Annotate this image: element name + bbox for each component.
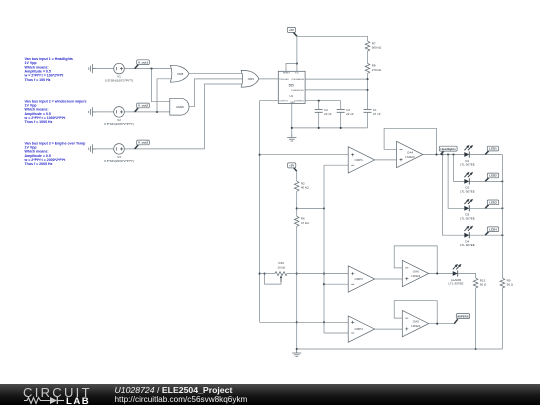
- wire gnd to V1: [92, 68, 113, 70]
- ground U1: [287, 133, 296, 141]
- comparator CMP3: [348, 266, 374, 292]
- comparator CMP4: [348, 316, 374, 342]
- wire V1 to AND8 in1: [152, 69, 170, 102]
- svg-text:U1: U1: [289, 94, 293, 98]
- wire V3 output: [124, 148, 204, 150]
- svg-text:LM324: LM324: [411, 274, 421, 278]
- svg-text:WIPERS: WIPERS: [457, 314, 468, 318]
- wire +5V to R7: [297, 36, 368, 41]
- junction ref cmp3row: [323, 273, 325, 275]
- wire U1 OUTPUT down: [260, 101, 279, 323]
- svg-text:Headlights: Headlights: [441, 147, 457, 151]
- wire V2 output: [124, 111, 170, 113]
- svg-text:CMP4: CMP4: [355, 327, 364, 331]
- junction OA4 feedback out: [435, 153, 437, 155]
- ground G1: [89, 64, 97, 73]
- voltage source V1: [105, 63, 133, 82]
- wire output row to R10: [260, 273, 268, 275]
- svg-text:OR9: OR9: [248, 77, 255, 81]
- svg-text:V_out3: V_out3: [138, 141, 148, 145]
- ground rail: [292, 349, 301, 357]
- wire feed D4: [442, 155, 464, 236]
- svg-text:560 kΩ: 560 kΩ: [372, 46, 382, 50]
- wire reference vertical: [323, 165, 325, 333]
- svg-text:47 kΩ: 47 kΩ: [301, 221, 310, 225]
- wire C2 to rail: [318, 112, 320, 128]
- wire gnd to V3: [92, 148, 113, 150]
- svg-text:40 kΩ: 40 kΩ: [301, 186, 310, 190]
- wire R10 to CMP3 +: [287, 273, 348, 275]
- or-gate OR9: [241, 70, 259, 87]
- wire OA4 feedback: [384, 128, 436, 154]
- resistor R8: [365, 63, 370, 73]
- junction wiper: [263, 273, 265, 275]
- junction feed D2: [452, 153, 454, 155]
- wire CMP1 out to OA4: [375, 159, 397, 161]
- svg-text:56 Ω: 56 Ω: [507, 283, 514, 287]
- wire to RESET pin: [286, 64, 297, 72]
- junction ref cmp4row: [323, 321, 325, 323]
- wire C1 to rail: [367, 112, 369, 128]
- svg-text:LED4: LED4: [489, 227, 497, 231]
- LED D3: [464, 199, 473, 212]
- wire +5V to R2: [296, 171, 298, 181]
- svg-text:Thus f = 100 Hz: Thus f = 100 Hz: [25, 78, 51, 82]
- 555 timer U1: [278, 71, 305, 104]
- junction D4 to bus: [501, 234, 503, 236]
- LED D1: [464, 145, 473, 158]
- wire V2 to OR8 in2: [157, 79, 172, 112]
- junction C2 rail: [318, 127, 320, 129]
- junction node V2: [156, 111, 158, 113]
- svg-text:LTL-307EE: LTL-307EE: [460, 243, 475, 247]
- svg-text:47 nF: 47 nF: [373, 112, 381, 116]
- wire R12 to rail: [475, 288, 477, 349]
- svg-text:OR8: OR8: [177, 72, 184, 76]
- and-gate AND8: [170, 98, 189, 115]
- svg-text:LTL-307EE: LTL-307EE: [460, 216, 475, 220]
- ground G3: [89, 144, 97, 153]
- svg-text:TRIGGER: TRIGGER: [279, 79, 289, 81]
- wire D2 cathode: [470, 180, 503, 182]
- junction threshold node: [366, 89, 368, 91]
- resistor R7: [365, 41, 370, 51]
- svg-text:0.5*SIN(1000*2*PI*T): 0.5*SIN(1000*2*PI*T): [104, 122, 134, 126]
- resistor R2: [294, 181, 299, 191]
- svg-text:Thus f = 2000 Hz: Thus f = 2000 Hz: [25, 162, 53, 166]
- LED D4: [464, 226, 473, 239]
- LED ALARM: [453, 264, 462, 277]
- junction OA6 feedback out: [436, 272, 438, 274]
- svg-text:GND: GND: [290, 102, 295, 104]
- svg-text:LTL-307EE: LTL-307EE: [460, 163, 475, 167]
- wire feed D2: [454, 155, 465, 182]
- junction gnd rail: [291, 127, 293, 129]
- footer bar: [0, 384, 540, 405]
- wire CMP3 out to OA6: [375, 278, 403, 280]
- circuitlab logo: [23, 385, 92, 400]
- wire V3 to OR9 in3: [205, 84, 244, 149]
- junction reset-vcc: [296, 62, 298, 64]
- resistor R12: [473, 278, 478, 288]
- wire to C3: [340, 101, 342, 110]
- svg-text:OUTPUT: OUTPUT: [279, 101, 288, 103]
- svg-text:CMP1: CMP1: [355, 158, 364, 162]
- flag LED1: [485, 146, 498, 154]
- ground G2: [89, 107, 97, 116]
- junction R12 rail: [475, 348, 477, 350]
- svg-text:10 kΩ: 10 kΩ: [277, 265, 286, 269]
- flag LED4: [485, 227, 498, 235]
- svg-text:VCC: VCC: [295, 72, 300, 74]
- wire OA6 feedback: [394, 246, 437, 274]
- wire R6 down to rail: [296, 227, 298, 350]
- junction feed D3: [447, 153, 449, 155]
- wire U1 CONTROL: [305, 100, 341, 102]
- wire OR9 out to U1 TRIGGER: [259, 78, 278, 80]
- wire U1 DISCHARGE: [305, 78, 367, 80]
- wire C3 to rail: [340, 112, 342, 128]
- svg-text:22 nF: 22 nF: [346, 112, 354, 116]
- flag Headlights: [439, 146, 457, 154]
- wire D1 cathode: [470, 154, 503, 156]
- wire alarm to R12: [458, 274, 475, 279]
- svg-text:0.5*SIN(100*2*PI*T): 0.5*SIN(100*2*PI*T): [105, 79, 133, 83]
- junction C3 rail: [340, 127, 342, 129]
- wire OA5 feedback: [394, 301, 437, 324]
- wire R7 to R8: [367, 51, 369, 63]
- junction output to CMP1: [259, 154, 261, 156]
- svg-text:LM324: LM324: [405, 155, 415, 159]
- wire R2 to R6: [296, 191, 298, 216]
- junction discharge node: [366, 78, 368, 80]
- LED D2: [464, 172, 473, 185]
- capacitor C2: [315, 109, 323, 112]
- wire +5V down to VCC: [296, 36, 298, 71]
- junction C2 tap: [318, 100, 320, 102]
- svg-text:LTL-307EE: LTL-307EE: [460, 189, 475, 193]
- resistor R9: [500, 278, 505, 288]
- wire output to CMP4 +: [260, 321, 349, 323]
- junction D2 to bus: [501, 180, 503, 182]
- svg-text:AND8: AND8: [176, 105, 184, 109]
- wire U1 THRESHOLD: [305, 89, 367, 91]
- or-gate OR8: [170, 65, 189, 82]
- svg-text:555: 555: [289, 83, 295, 87]
- wire divider tap: [297, 207, 324, 209]
- wire OA4 out to D1: [423, 154, 464, 156]
- wire R10 wiper loop: [265, 274, 282, 285]
- wire CMP4 out to OA5: [375, 328, 403, 330]
- voltage source V2: [104, 107, 134, 126]
- svg-text:270 kΩ: 270 kΩ: [372, 68, 382, 72]
- wire D3 cathode: [470, 207, 503, 209]
- svg-text:0.5*SIN(2000*2*PI*T): 0.5*SIN(2000*2*PI*T): [104, 159, 134, 163]
- wire R9 to rail: [501, 288, 503, 349]
- wire output to CMP1 +: [260, 154, 349, 156]
- wire feed D3: [448, 155, 464, 209]
- wire R8 down to C1: [367, 74, 369, 110]
- junction divider tap: [296, 207, 298, 209]
- junction R6 cmp4row: [296, 321, 298, 323]
- svg-text:DISCHARGE: DISCHARGE: [292, 78, 305, 81]
- svg-text:LED1: LED1: [489, 147, 497, 151]
- flag LED3: [485, 200, 498, 208]
- wire OR8 out to OR9 in1: [189, 73, 244, 75]
- wire cathode bus down: [501, 155, 503, 279]
- svg-text:RESET: RESET: [283, 72, 291, 74]
- junction D3 to bus: [501, 207, 503, 209]
- wire cap ground rail: [292, 127, 368, 129]
- wire AND8 out to OR9 in2: [189, 79, 244, 107]
- wire OA6 out to alarm LED: [429, 273, 453, 275]
- wire ref to CMP3 -: [324, 283, 348, 285]
- svg-text:Thus f = 1000 Hz: Thus f = 1000 Hz: [25, 120, 53, 124]
- svg-text:LM324: LM324: [411, 324, 421, 328]
- wire bottom rail: [297, 348, 503, 350]
- comparator CMP1: [348, 147, 374, 173]
- flag V_out1: [135, 60, 150, 69]
- svg-text:22 nF: 22 nF: [324, 112, 332, 116]
- logo diode: [50, 397, 57, 404]
- svg-text:V_out2: V_out2: [138, 104, 148, 108]
- power flag +5V top: [287, 27, 297, 36]
- potentiometer R10: [268, 273, 275, 275]
- capacitor C1: [364, 109, 372, 112]
- wire OA5 out to WIPERS: [429, 323, 455, 325]
- flag LED2: [485, 173, 498, 181]
- logo resistor squiggle: [24, 398, 50, 404]
- wire ref to CMP1 -: [324, 164, 348, 166]
- wire to C2: [318, 101, 320, 110]
- wire U1 GND: [291, 104, 293, 134]
- junction feed D4: [441, 153, 443, 155]
- flag V_out3: [135, 140, 150, 149]
- flag WIPERS: [454, 314, 469, 324]
- junction output to R10: [259, 273, 261, 275]
- junction ref node: [323, 207, 325, 209]
- svg-text:LTL-307EE: LTL-307EE: [449, 282, 464, 286]
- flag V_out2: [135, 103, 150, 112]
- svg-text:THRESHOLD: THRESHOLD: [291, 90, 304, 92]
- wire D4 cathode: [470, 234, 503, 236]
- svg-text:+5V: +5V: [289, 28, 294, 32]
- wire ref to CMP4 -: [324, 332, 348, 334]
- svg-text:V_out1: V_out1: [138, 60, 148, 64]
- svg-text:+5V: +5V: [289, 164, 294, 168]
- power flag +5V divider: [288, 163, 297, 171]
- svg-text:CMP3: CMP3: [355, 277, 364, 281]
- svg-text:LED2: LED2: [489, 174, 497, 178]
- svg-text:LED3: LED3: [489, 201, 497, 205]
- op-amp OA6 LM324: [402, 260, 428, 286]
- svg-text:56 Ω: 56 Ω: [480, 283, 487, 287]
- svg-text:CONTROL: CONTROL: [294, 101, 305, 103]
- resistor R6: [294, 216, 299, 226]
- op-amp OA4 LM324: [397, 141, 423, 167]
- voltage source V3: [104, 144, 134, 163]
- junction ref to CMP3 -: [323, 283, 325, 285]
- junction OA5 feedback out: [436, 323, 438, 325]
- op-amp OA5 LM324: [402, 310, 428, 336]
- junction node V1: [150, 68, 152, 70]
- wire gnd to V2: [92, 111, 113, 113]
- wire V1 output: [124, 68, 172, 70]
- junction R6 R10: [296, 273, 298, 275]
- junction rail ground: [296, 348, 298, 350]
- capacitor C3: [337, 109, 345, 112]
